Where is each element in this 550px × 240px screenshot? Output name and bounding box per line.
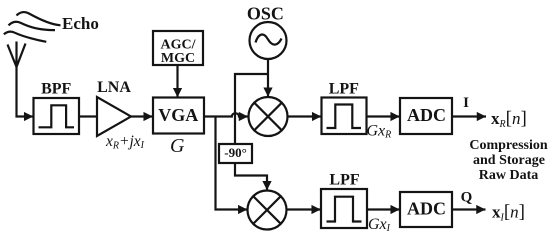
svg-text:LPF: LPF	[329, 172, 359, 189]
svg-text:BPF: BPF	[41, 81, 71, 98]
svg-text:LPF: LPF	[329, 81, 359, 98]
svg-text:G: G	[170, 135, 185, 157]
svg-text:ADC: ADC	[407, 199, 446, 219]
svg-text:OSC: OSC	[247, 4, 284, 24]
svg-text:VGA: VGA	[158, 105, 198, 125]
svg-text:GxR: GxR	[367, 123, 392, 141]
svg-text:Compression: Compression	[469, 138, 548, 153]
svg-text:GxI: GxI	[368, 216, 391, 234]
svg-text:LNA: LNA	[97, 79, 131, 96]
svg-text:-90°: -90°	[224, 145, 247, 160]
svg-text:MGC: MGC	[161, 51, 195, 66]
svg-text:and Storage: and Storage	[473, 153, 545, 168]
svg-text:Q: Q	[461, 190, 473, 206]
svg-text:xR[n]: xR[n]	[491, 108, 527, 130]
svg-text:Echo: Echo	[62, 14, 99, 33]
svg-text:xI[n]: xI[n]	[492, 202, 525, 224]
svg-text:xR+jxI: xR+jxI	[105, 133, 145, 152]
svg-text:I: I	[463, 95, 469, 111]
svg-text:Raw Data: Raw Data	[479, 168, 539, 183]
svg-text:ADC: ADC	[407, 105, 446, 125]
